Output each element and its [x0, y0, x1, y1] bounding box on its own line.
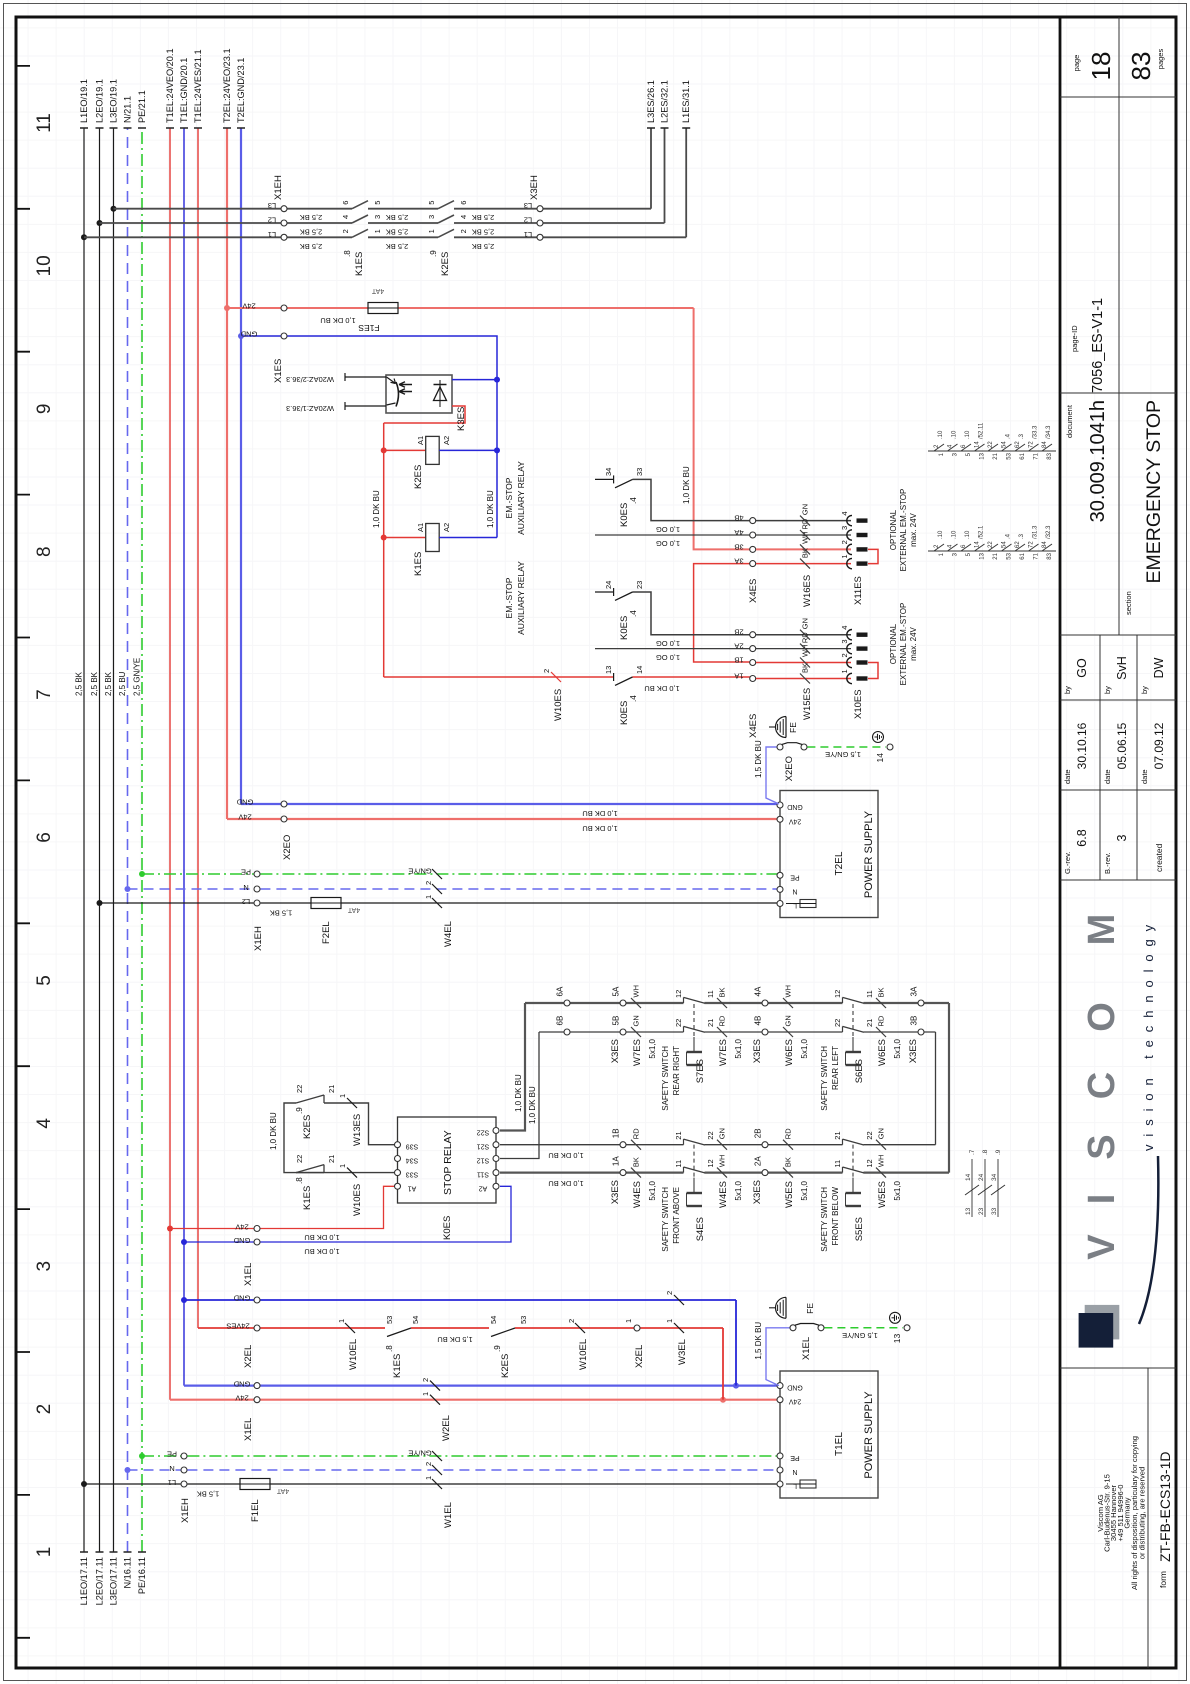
svg-text:X1EH: X1EH	[180, 1498, 191, 1523]
svg-text:K0ES: K0ES	[442, 1216, 453, 1240]
wire GND to T1EL join	[735, 1300, 737, 1386]
svg-text:GN: GN	[801, 618, 810, 629]
svg-text:1,0 OG: 1,0 OG	[656, 539, 680, 548]
wire 1,5 DK BU to X2EO FE	[766, 747, 779, 804]
junction GND rail K3ES	[494, 377, 500, 383]
junction 24VES feed	[720, 1397, 726, 1403]
svg-text:FE: FE	[788, 722, 798, 733]
svg-text:/31.3: /31.3	[1033, 525, 1039, 539]
junction GND bus tap A2	[181, 1239, 187, 1245]
svg-text:section: section	[1124, 591, 1133, 615]
svg-text:C: C	[1081, 1072, 1123, 1099]
cable W4ES crossing RD	[631, 1140, 641, 1150]
svg-text:WH: WH	[718, 1155, 727, 1168]
svg-text:2: 2	[424, 881, 433, 885]
svg-text:K2ES: K2ES	[413, 465, 424, 489]
svg-text:2,5 BK: 2,5 BK	[386, 228, 409, 237]
svg-text:14: 14	[965, 1173, 972, 1181]
svg-text:3: 3	[953, 452, 959, 456]
svg-text:PE: PE	[790, 1454, 800, 1461]
svg-text:33: 33	[991, 1207, 998, 1215]
svg-text:WH: WH	[877, 1155, 886, 1168]
cable W7ES crossing GN	[631, 1027, 641, 1037]
svg-text:N: N	[243, 883, 248, 892]
junction L2 tap right	[97, 220, 103, 226]
terminal X3EH (L1,L2,L3)	[537, 234, 543, 240]
contact cross-reference K2ES	[928, 450, 1056, 452]
cable W10EL crossing 2	[575, 1323, 585, 1333]
svg-text:2,5 BK: 2,5 BK	[386, 242, 409, 251]
bus PE (dash-dot)	[141, 128, 143, 1552]
svg-text:10: 10	[34, 255, 55, 276]
svg-text:EM.-STOP: EM.-STOP	[504, 477, 514, 518]
terminal X4ES 3B	[750, 546, 756, 552]
junction GND rail K2ES	[494, 447, 500, 453]
svg-text:1,0 DK BU: 1,0 DK BU	[514, 1074, 523, 1112]
svg-text:.9: .9	[493, 1345, 502, 1352]
cable W5ES crossing GN	[876, 1140, 886, 1150]
svg-text:W15ES: W15ES	[802, 688, 813, 720]
svg-text:L3: L3	[524, 201, 532, 210]
terminal X1EL FE pair	[790, 1325, 796, 1331]
cable W4ES crossing BK	[631, 1168, 641, 1178]
cable W7ES crossing RD	[717, 1027, 727, 1037]
svg-text:3: 3	[953, 552, 959, 556]
svg-text:L1: L1	[524, 230, 532, 239]
svg-text:1B: 1B	[612, 1128, 621, 1138]
safety switch S4ES contacts	[683, 1167, 685, 1173]
svg-text:1,5 DK BU: 1,5 DK BU	[754, 1322, 763, 1360]
svg-text:24V: 24V	[235, 1223, 248, 1232]
svg-text:1A: 1A	[612, 1156, 621, 1166]
svg-text:4: 4	[459, 215, 468, 219]
wire S21 rail	[500, 1144, 684, 1146]
svg-text:22: 22	[295, 1085, 304, 1093]
svg-text:W6ES: W6ES	[877, 1039, 888, 1066]
terminal X3ES 2B	[762, 1142, 768, 1148]
svg-text:24V: 24V	[242, 302, 255, 311]
wire 24V to K0ES A1	[170, 1186, 394, 1228]
terminal X2EO 24V GND	[281, 816, 287, 822]
svg-text:2,5 BK: 2,5 BK	[300, 213, 323, 222]
cable W7ES crossing BK	[717, 998, 727, 1008]
svg-text:5: 5	[34, 975, 55, 986]
svg-text:5: 5	[427, 201, 436, 205]
svg-text:05.06.15: 05.06.15	[1115, 722, 1129, 769]
svg-text:1,0 DK BU: 1,0 DK BU	[644, 684, 679, 693]
svg-text:PE/21.1: PE/21.1	[137, 90, 147, 123]
svg-text:1,0 DK BU: 1,0 DK BU	[304, 1247, 339, 1256]
terminal X3ES 2A	[762, 1170, 768, 1176]
svg-text:8: 8	[34, 546, 55, 557]
svg-text:1: 1	[840, 669, 849, 673]
svg-text:X3ES: X3ES	[610, 1180, 621, 1204]
svg-text:11: 11	[706, 990, 715, 998]
svg-text:34: 34	[991, 1173, 998, 1181]
wire 1,5 GN/YE to earth	[807, 746, 886, 748]
junction PE tap	[139, 1453, 145, 1459]
svg-text:6A: 6A	[556, 986, 565, 996]
wire S12 link	[500, 1032, 539, 1159]
junction 24V bus tap A1	[167, 1226, 173, 1232]
svg-text:.9: .9	[429, 250, 438, 257]
functional earth symbol	[776, 717, 786, 738]
power supply T1EL box	[780, 1371, 878, 1498]
bus L1EO	[83, 128, 85, 1552]
svg-text:2,5 BK: 2,5 BK	[300, 242, 323, 251]
svg-text:1,0 DK BU: 1,0 DK BU	[548, 1151, 583, 1160]
terminal X3ES 5A	[620, 1000, 626, 1006]
svg-text:54: 54	[1002, 441, 1008, 448]
svg-text:11: 11	[674, 1160, 683, 1168]
svg-text:L1EO/17.11: L1EO/17.11	[79, 1557, 89, 1605]
fuse F1EL 4AT	[240, 1479, 270, 1490]
svg-text:.10: .10	[965, 530, 971, 539]
exit ticks and labels L ES	[647, 127, 690, 129]
svg-text:5B: 5B	[612, 1016, 621, 1026]
junction coil K2ES A1	[381, 447, 387, 453]
svg-text:X1EL: X1EL	[243, 1418, 254, 1441]
terminal X3ES 6A	[564, 1000, 570, 1006]
svg-text:W6ES: W6ES	[784, 1039, 795, 1066]
svg-text:54: 54	[411, 1316, 420, 1324]
contact K0ES 23-24 with stub	[595, 591, 614, 593]
svg-text:T2EL: T2EL	[834, 851, 845, 875]
svg-text:2: 2	[934, 544, 940, 548]
svg-text:1: 1	[624, 1319, 633, 1323]
svg-text:12: 12	[706, 1159, 715, 1167]
svg-text:.4: .4	[1006, 433, 1012, 439]
svg-text:GND: GND	[787, 803, 803, 810]
bus N (dashed)	[127, 128, 129, 1552]
svg-text:W2EL: W2EL	[441, 1415, 452, 1441]
svg-text:21: 21	[674, 1131, 683, 1139]
svg-text:K0ES: K0ES	[619, 503, 630, 527]
wire coil rail to W10ES	[384, 676, 385, 678]
svg-text:.10: .10	[952, 430, 958, 439]
svg-text:GND: GND	[236, 798, 253, 807]
svg-text:5x1,0: 5x1,0	[893, 1180, 902, 1200]
svg-text:24V: 24V	[235, 1394, 248, 1403]
contact cross-reference K1ES	[928, 550, 1056, 552]
svg-text:.10: .10	[965, 430, 971, 439]
svg-text:1,5 BK: 1,5 BK	[197, 1490, 220, 1499]
svg-text:W4ES: W4ES	[632, 1181, 643, 1208]
contact K1ES 53-54	[387, 1328, 411, 1337]
svg-text:AUXILIARY RELAY: AUXILIARY RELAY	[516, 461, 526, 535]
svg-text:72: 72	[1029, 541, 1035, 548]
svg-text:14: 14	[975, 541, 981, 548]
svg-text:N: N	[792, 887, 797, 894]
cable W10ES crossing 1	[347, 1168, 357, 1178]
svg-text:POWER SUPPLY: POWER SUPPLY	[863, 1391, 875, 1479]
svg-text:T2EL:GND/23.1: T2EL:GND/23.1	[236, 58, 246, 123]
svg-text:83: 83	[1047, 452, 1053, 459]
svg-text:1,0 OG: 1,0 OG	[656, 639, 680, 648]
wire W20AZ:2 stub	[345, 376, 386, 378]
svg-text:GN/YE: GN/YE	[408, 867, 431, 876]
svg-text:X11ES: X11ES	[853, 576, 864, 605]
wire N drop to T1EL	[128, 1469, 181, 1471]
fuse F2EL 4AT	[311, 898, 341, 909]
svg-text:EMERGENCY STOP: EMERGENCY STOP	[1143, 400, 1165, 584]
connector X11ES pins	[847, 558, 852, 568]
earth point 14	[887, 744, 893, 750]
svg-text:X3EH: X3EH	[529, 175, 540, 200]
cable W7ES crossing WH	[631, 998, 641, 1008]
svg-text:1: 1	[939, 552, 945, 556]
svg-text:2: 2	[459, 229, 468, 233]
terminal X1ES GND	[281, 333, 287, 339]
svg-text:A2: A2	[442, 523, 451, 532]
svg-text:4B: 4B	[754, 1016, 763, 1026]
svg-text:4: 4	[948, 544, 954, 548]
svg-text:L: L	[793, 1482, 797, 1489]
svg-text:72: 72	[1029, 441, 1035, 448]
junction GND bus tap	[238, 333, 244, 339]
svg-text:1,0 DK BU: 1,0 DK BU	[682, 466, 691, 504]
svg-text:4AT: 4AT	[276, 1487, 289, 1494]
svg-text:1: 1	[338, 1094, 347, 1098]
terminal X3ES 6B	[564, 1029, 570, 1035]
svg-text:1: 1	[337, 1319, 346, 1323]
wire PE drop to T2EL	[142, 873, 254, 875]
svg-text:1,0 DK BU: 1,0 DK BU	[269, 1112, 278, 1150]
svg-text:FRONT BELOW: FRONT BELOW	[831, 1187, 840, 1246]
svg-text:14: 14	[635, 666, 644, 674]
svg-text:BK: BK	[784, 1157, 793, 1167]
title block vertical dividers	[1060, 1367, 1176, 1369]
svg-text:W7ES: W7ES	[632, 1039, 643, 1066]
svg-text:3: 3	[373, 215, 382, 219]
svg-text:5x1,0: 5x1,0	[648, 1038, 657, 1058]
svg-text:4: 4	[840, 511, 849, 515]
svg-text:max. 24V: max. 24V	[909, 512, 918, 546]
svg-text:1,5 GN/YE: 1,5 GN/YE	[825, 750, 861, 759]
svg-text:DW: DW	[1152, 657, 1166, 678]
svg-text:X3ES: X3ES	[752, 1180, 763, 1204]
svg-text:4B: 4B	[734, 514, 743, 523]
svg-text:21: 21	[865, 1019, 874, 1027]
svg-text:7056_ES-V1-1: 7056_ES-V1-1	[1090, 298, 1106, 393]
svg-text:K1ES: K1ES	[413, 552, 424, 576]
svg-text:2: 2	[421, 1378, 430, 1382]
svg-text:.10: .10	[952, 530, 958, 539]
svg-text:24: 24	[604, 581, 613, 589]
svg-text:22: 22	[988, 441, 994, 448]
terminal X4ES 4A	[750, 532, 756, 538]
svg-text:FRONT ABOVE: FRONT ABOVE	[672, 1187, 681, 1244]
svg-text:K1ES: K1ES	[392, 1354, 403, 1378]
svg-text:PE: PE	[167, 1450, 177, 1459]
svg-text:WH: WH	[784, 985, 793, 998]
svg-text:3: 3	[1115, 834, 1129, 841]
svg-text:2B: 2B	[754, 1128, 763, 1138]
svg-text:ZT-FB-ECS13-1D: ZT-FB-ECS13-1D	[1157, 1452, 1173, 1562]
svg-text:form: form	[1158, 1571, 1168, 1588]
svg-text:GN: GN	[784, 1015, 793, 1026]
svg-text:5x1,0: 5x1,0	[800, 1180, 809, 1200]
svg-text:5x1,0: 5x1,0	[800, 1038, 809, 1058]
svg-text:I: I	[1081, 1194, 1123, 1205]
junction GND bus tap X2EL	[181, 1297, 187, 1303]
svg-text:W4EL: W4EL	[443, 921, 454, 947]
svg-text:L2ES/32.1: L2ES/32.1	[660, 80, 670, 123]
svg-text:21: 21	[327, 1155, 336, 1163]
junction 24VEO bus tap	[224, 305, 230, 311]
svg-text:X2EL: X2EL	[243, 1345, 254, 1368]
column tick marks on top edge	[16, 66, 30, 1638]
svg-text:.8: .8	[982, 1149, 989, 1155]
jumper X10ES 1-2	[868, 663, 878, 679]
junction GND-FE feed	[733, 1383, 739, 1389]
cable W5ES crossing WH	[876, 1168, 886, 1178]
wire X2EO 24V drop	[227, 818, 780, 820]
svg-text:84: 84	[1042, 541, 1048, 548]
cable W1EL crossing	[432, 1479, 442, 1489]
terminal X2EL 1	[634, 1325, 640, 1331]
solid state relay K3ES box	[386, 375, 452, 413]
svg-text:83: 83	[1126, 52, 1156, 81]
svg-text:22: 22	[706, 1131, 715, 1139]
svg-text:L1: L1	[268, 230, 276, 239]
svg-text:EM.-STOP: EM.-STOP	[504, 577, 514, 618]
svg-text:X1EH: X1EH	[253, 926, 264, 951]
K3ES arrows	[399, 389, 412, 395]
svg-text:1,5 DK BU: 1,5 DK BU	[754, 740, 763, 778]
svg-text:13: 13	[892, 1334, 902, 1344]
svg-text:3: 3	[427, 215, 436, 219]
cable W16ES crossings	[800, 559, 810, 569]
svg-text:5x1,0: 5x1,0	[648, 1180, 657, 1200]
wires X4ES to X10ES	[756, 678, 851, 680]
svg-text:12: 12	[833, 990, 842, 998]
wire link S21 to 3B	[935, 1032, 937, 1145]
svg-text:GN: GN	[632, 1015, 641, 1026]
svg-text:A1: A1	[408, 1184, 417, 1191]
svg-text:1B: 1B	[734, 656, 743, 665]
svg-text:W7ES: W7ES	[718, 1039, 729, 1066]
svg-text:1,0 DK BU: 1,0 DK BU	[528, 1086, 537, 1124]
svg-text:L: L	[793, 902, 797, 909]
wire X4ES 4A stub	[595, 534, 753, 536]
wire N drop to T2EL	[128, 888, 254, 890]
svg-text:X3ES: X3ES	[908, 1039, 919, 1063]
terminal X2EL 24VES	[254, 1325, 260, 1331]
svg-text:T1EL:24VES/21.1: T1EL:24VES/21.1	[193, 49, 203, 123]
wire K1ES A2 drop	[439, 537, 497, 539]
svg-text:GND: GND	[787, 1384, 803, 1391]
svg-text:A2: A2	[442, 436, 451, 445]
svg-text:24V: 24V	[238, 813, 251, 822]
svg-text:N/21.1: N/21.1	[123, 96, 133, 123]
wire 3A to 1B loop	[694, 564, 753, 662]
cable W13ES crossing	[347, 1098, 357, 1108]
svg-text:1,0 DK BU: 1,0 DK BU	[372, 490, 381, 528]
svg-text:13: 13	[965, 1207, 972, 1215]
svg-text:62: 62	[1015, 541, 1021, 548]
wire S33 loop	[296, 1172, 394, 1174]
svg-text:POWER SUPPLY: POWER SUPPLY	[863, 810, 875, 898]
svg-text:G.-rev.: G.-rev.	[1063, 852, 1072, 874]
svg-text:max. 24V: max. 24V	[909, 626, 918, 660]
wire S22 link	[500, 1003, 525, 1131]
svg-text:14: 14	[875, 753, 885, 763]
fuse F1ES 4AT	[368, 303, 398, 314]
svg-text:6: 6	[341, 201, 350, 205]
wire 6A rail	[525, 1002, 684, 1004]
svg-text:12: 12	[674, 990, 683, 998]
svg-text:GND: GND	[240, 330, 257, 339]
svg-text:18: 18	[1086, 52, 1116, 81]
svg-text:24V: 24V	[788, 817, 801, 824]
wire GND rail for coils	[241, 336, 497, 538]
svg-text:by: by	[1140, 686, 1149, 694]
svg-text:date: date	[1063, 769, 1072, 784]
svg-text:S34: S34	[406, 1157, 419, 1164]
terminal X4ES 1B	[750, 660, 756, 666]
svg-text:BK: BK	[718, 987, 727, 997]
svg-text:.9: .9	[995, 1149, 1002, 1155]
cable W6ES crossing RD	[876, 1027, 886, 1037]
bus T1EL:24VEO	[169, 128, 171, 1400]
wire K3ES gnd	[452, 379, 497, 381]
svg-text:L1EO/19.1: L1EO/19.1	[79, 79, 89, 123]
svg-text:22: 22	[865, 1131, 874, 1139]
svg-text:2,5 BK: 2,5 BK	[300, 228, 323, 237]
svg-text:K0ES: K0ES	[619, 701, 630, 725]
svg-text:K3ES: K3ES	[456, 407, 467, 431]
svg-text:2A: 2A	[754, 1156, 763, 1166]
svg-text:SAFETY SWITCH: SAFETY SWITCH	[661, 1046, 670, 1111]
svg-text:53: 53	[385, 1316, 394, 1324]
wire K3ES red link	[384, 406, 465, 423]
K0ES bottom pins A2 S11 S12 S21 S22	[493, 1183, 499, 1189]
svg-text:K1ES: K1ES	[302, 1186, 313, 1210]
svg-text:2: 2	[840, 540, 849, 544]
bus T1EL:24VES	[197, 128, 199, 1328]
svg-text:GN: GN	[801, 504, 810, 515]
svg-text:6: 6	[961, 444, 967, 448]
svg-text:61: 61	[1020, 452, 1026, 459]
wire L2 phase chain	[100, 222, 353, 224]
svg-text:24: 24	[978, 1173, 985, 1181]
svg-text:SvH: SvH	[1115, 656, 1129, 680]
svg-text:5: 5	[373, 201, 382, 205]
viscom logo squares	[1085, 1305, 1120, 1340]
svg-text:W16ES: W16ES	[802, 575, 813, 607]
svg-text:3B: 3B	[734, 542, 743, 551]
cable W15ES crossings	[800, 674, 810, 684]
bus end ticks	[80, 128, 245, 1552]
svg-text:AUXILIARY RELAY: AUXILIARY RELAY	[516, 561, 526, 635]
svg-text:9: 9	[34, 404, 55, 415]
cable W6ES crossing WH	[783, 998, 793, 1008]
svg-text:L3ES/26.1: L3ES/26.1	[646, 80, 656, 123]
power supply T2EL box	[780, 791, 878, 918]
svg-text:1: 1	[840, 554, 849, 558]
title block top edge	[1059, 17, 1062, 1668]
svg-text:1: 1	[34, 1547, 55, 1558]
svg-text:5x1,0: 5x1,0	[893, 1038, 902, 1058]
wire K2ES A1 drop	[384, 449, 426, 451]
contact K2ES 53-54	[491, 1328, 515, 1337]
svg-text:1: 1	[427, 229, 436, 233]
svg-text:N/16.11: N/16.11	[123, 1557, 133, 1589]
svg-text:3A: 3A	[734, 557, 743, 566]
svg-text:3: 3	[840, 526, 849, 530]
svg-text:S4ES: S4ES	[695, 1217, 706, 1241]
